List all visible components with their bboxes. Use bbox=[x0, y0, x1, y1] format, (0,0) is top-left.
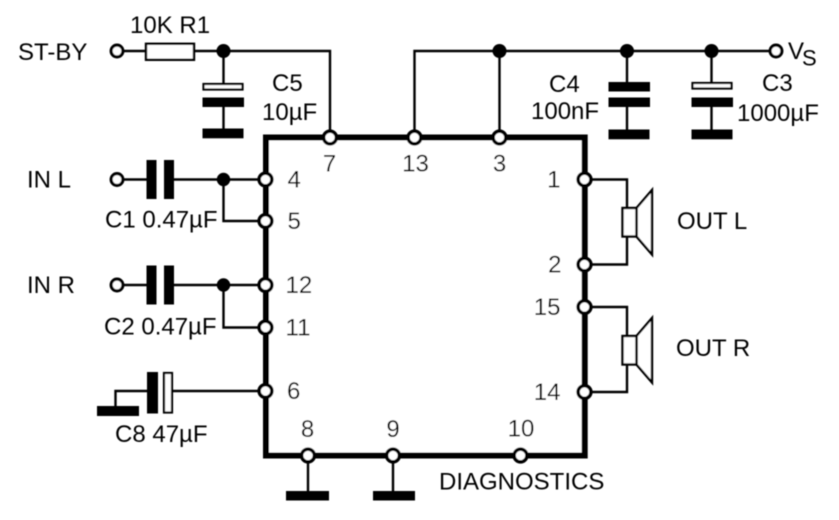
terminal Vs bbox=[770, 45, 782, 57]
pin 4 bbox=[259, 173, 272, 186]
pin 12 bbox=[259, 279, 272, 292]
svg-text:6: 6 bbox=[287, 378, 300, 405]
pin 13 bbox=[408, 131, 421, 144]
node junction C2 bbox=[217, 278, 230, 291]
svg-text:2: 2 bbox=[548, 252, 561, 279]
svg-text:7: 7 bbox=[323, 151, 336, 178]
pin 8 bbox=[302, 449, 315, 462]
pin 10 bbox=[514, 449, 527, 462]
speaker OUT R bbox=[623, 318, 653, 383]
node junction pin3 bbox=[493, 44, 507, 58]
wire Vs supply rail bbox=[415, 51, 771, 137]
svg-text:1: 1 bbox=[547, 167, 560, 194]
svg-text:3: 3 bbox=[493, 151, 506, 178]
capacitor C5 bbox=[203, 84, 245, 129]
ground C3 bbox=[692, 130, 733, 140]
svg-text:OUT L: OUT L bbox=[677, 208, 747, 235]
terminal ST-BY bbox=[111, 45, 123, 57]
svg-text:ST-BY: ST-BY bbox=[18, 39, 87, 66]
wire junction to pin 3 bbox=[498, 51, 500, 137]
wire junction to C3 bbox=[710, 51, 712, 84]
speaker OUT L bbox=[623, 190, 653, 255]
wire junction to pin 11 bbox=[224, 285, 266, 328]
svg-text:5: 5 bbox=[288, 208, 301, 235]
svg-text:C8 47µF: C8 47µF bbox=[115, 421, 208, 448]
pin 7 bbox=[324, 131, 337, 144]
ground C8 bbox=[97, 406, 139, 416]
svg-text:C4: C4 bbox=[549, 71, 580, 98]
svg-text:C3: C3 bbox=[762, 70, 793, 97]
wire junction to C4 bbox=[626, 51, 628, 84]
node junction C1 bbox=[217, 173, 230, 186]
wire IN L terminal to C1 bbox=[123, 178, 148, 180]
wire C2 to pin 12 bbox=[174, 284, 266, 286]
svg-text:9: 9 bbox=[386, 416, 399, 443]
terminal IN L bbox=[111, 174, 123, 186]
svg-text:14: 14 bbox=[534, 379, 561, 406]
svg-text:4: 4 bbox=[288, 167, 301, 194]
wire ST-BY terminal to R1 bbox=[123, 50, 148, 52]
wire pin 1 to speaker L bbox=[585, 180, 628, 210]
svg-text:S: S bbox=[802, 46, 817, 71]
svg-text:8: 8 bbox=[301, 416, 314, 443]
pin 11 bbox=[259, 321, 272, 334]
capacitor C3 bbox=[692, 83, 734, 130]
wire C1 to pin 4 bbox=[174, 178, 266, 180]
wire C8 to pin 6 bbox=[173, 390, 266, 392]
pin 14 bbox=[578, 386, 591, 399]
wire R1 to pin7 corner bbox=[194, 51, 330, 137]
pin 2 bbox=[578, 258, 591, 271]
svg-text:10: 10 bbox=[508, 416, 535, 443]
svg-text:IN R: IN R bbox=[27, 272, 75, 299]
svg-text:12: 12 bbox=[286, 272, 313, 299]
ground pin 8 bbox=[286, 491, 329, 501]
svg-text:13: 13 bbox=[402, 151, 429, 178]
svg-text:C1 0.47µF: C1 0.47µF bbox=[105, 207, 218, 234]
svg-text:1000µF: 1000µF bbox=[737, 100, 819, 127]
wire C8 ground stem bbox=[116, 391, 148, 406]
wire IN R terminal to C2 bbox=[123, 284, 148, 286]
IC body U1 bbox=[266, 138, 585, 456]
svg-text:11: 11 bbox=[286, 315, 311, 342]
svg-text:OUT R: OUT R bbox=[676, 335, 750, 362]
capacitor C4 bbox=[609, 82, 651, 130]
pin 6 bbox=[259, 385, 272, 398]
capacitor C2 bbox=[147, 266, 175, 305]
ground pin 9 bbox=[373, 491, 415, 501]
svg-text:DIAGNOSTICS: DIAGNOSTICS bbox=[439, 469, 604, 496]
pin 3 bbox=[493, 131, 506, 144]
wire junction to pin 5 bbox=[224, 180, 266, 222]
resistor R1 bbox=[146, 44, 194, 60]
wire pin 9 ground stem bbox=[392, 455, 394, 492]
svg-text:IN L: IN L bbox=[27, 167, 71, 194]
node junction R1/C5 bbox=[217, 44, 231, 58]
node junction C3 bbox=[705, 44, 719, 58]
terminal IN R bbox=[111, 279, 123, 291]
wire pin 14 to speaker R bbox=[585, 364, 628, 392]
wire pin 8 ground stem bbox=[307, 455, 309, 492]
svg-text:10K R1: 10K R1 bbox=[130, 12, 210, 39]
svg-text:C5: C5 bbox=[272, 70, 303, 97]
svg-text:C2 0.47µF: C2 0.47µF bbox=[104, 314, 217, 341]
pin 5 bbox=[259, 215, 272, 228]
pin 15 bbox=[578, 301, 591, 314]
ground C4 bbox=[609, 130, 650, 140]
ground C5 bbox=[203, 129, 244, 139]
pin 1 bbox=[578, 173, 591, 186]
node junction C4 bbox=[620, 44, 634, 58]
svg-text:100nF: 100nF bbox=[531, 98, 599, 125]
wire pin 15 to speaker R bbox=[585, 307, 628, 337]
capacitor C1 bbox=[147, 160, 175, 199]
capacitor C8 bbox=[147, 372, 172, 414]
pin 9 bbox=[387, 449, 400, 462]
wire pin 2 to speaker L bbox=[585, 236, 628, 265]
svg-text:10µF: 10µF bbox=[262, 99, 317, 126]
wire junction to C5 bbox=[222, 51, 224, 84]
svg-text:15: 15 bbox=[534, 294, 561, 321]
